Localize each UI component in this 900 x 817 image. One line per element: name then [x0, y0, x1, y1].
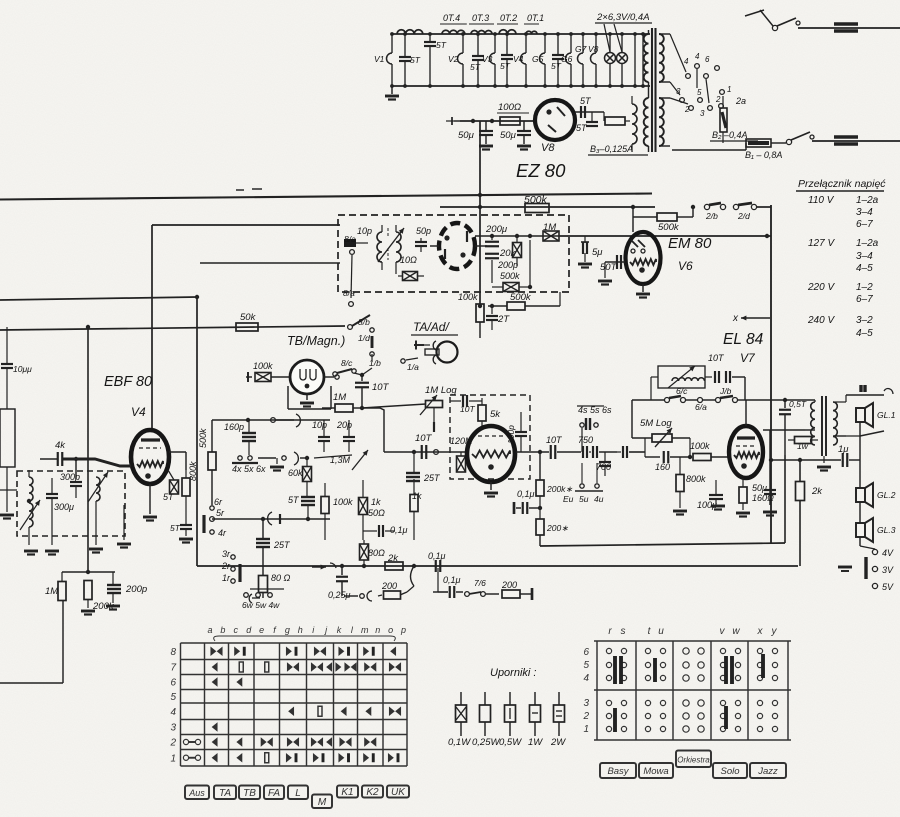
svg-text:220 V: 220 V — [807, 282, 835, 293]
svg-text:160p: 160p — [224, 422, 244, 432]
svg-text:V8: V8 — [541, 142, 555, 154]
svg-text:10T: 10T — [546, 435, 563, 445]
svg-text:4: 4 — [170, 707, 176, 718]
svg-text:Aus: Aus — [188, 788, 205, 798]
svg-text:0,25W: 0,25W — [472, 737, 500, 748]
svg-text:Uporniki :: Uporniki : — [490, 667, 536, 679]
svg-text:4V: 4V — [882, 548, 894, 558]
svg-text:5: 5 — [583, 660, 589, 671]
svg-text:7: 7 — [170, 663, 176, 674]
svg-text:80Ω: 80Ω — [368, 548, 385, 558]
svg-text:V4: V4 — [513, 54, 524, 64]
svg-text:2: 2 — [715, 95, 721, 104]
svg-text:160: 160 — [655, 462, 670, 472]
svg-text:2a: 2a — [735, 96, 746, 106]
svg-text:4–5: 4–5 — [856, 263, 873, 274]
svg-text:0T.4: 0T.4 — [443, 13, 460, 23]
svg-text:6: 6 — [170, 678, 176, 689]
svg-text:10T: 10T — [372, 382, 390, 393]
svg-text:100k: 100k — [458, 292, 478, 302]
svg-text:800k: 800k — [686, 474, 706, 484]
svg-text:5T: 5T — [500, 61, 511, 71]
svg-text:u: u — [658, 626, 664, 637]
svg-text:500k: 500k — [198, 428, 208, 448]
svg-text:10Ω: 10Ω — [400, 255, 417, 265]
svg-text:8/a: 8/a — [344, 234, 356, 244]
svg-text:5T: 5T — [163, 492, 175, 502]
svg-text:2×6,3V/0,4A: 2×6,3V/0,4A — [596, 12, 650, 23]
svg-text:GL.2: GL.2 — [877, 490, 896, 500]
svg-text:V7: V7 — [740, 351, 756, 365]
svg-text:g: g — [285, 625, 290, 635]
svg-text:B₂ –0,4A: B₂ –0,4A — [712, 130, 747, 140]
svg-text:4–5: 4–5 — [856, 328, 873, 339]
svg-text:300p: 300p — [60, 472, 80, 482]
svg-text:100Ω: 100Ω — [498, 102, 521, 113]
svg-text:1M: 1M — [333, 392, 346, 403]
svg-text:UK: UK — [391, 787, 406, 798]
svg-text:Mowa: Mowa — [643, 766, 668, 777]
svg-text:M: M — [318, 797, 327, 808]
svg-text:2: 2 — [169, 738, 176, 749]
svg-text:8: 8 — [170, 647, 176, 658]
svg-text:y: y — [771, 626, 778, 637]
svg-text:V4: V4 — [131, 405, 146, 419]
svg-text:0T.2: 0T.2 — [500, 13, 517, 23]
svg-text:V1: V1 — [374, 54, 385, 64]
svg-text:4u: 4u — [594, 494, 604, 504]
svg-text:200p: 200p — [497, 260, 518, 270]
svg-text:p: p — [400, 625, 406, 635]
svg-text:s: s — [621, 626, 626, 637]
svg-text:G5: G5 — [532, 54, 544, 64]
svg-text:m: m — [361, 625, 369, 635]
svg-text:B₃–0,125A: B₃–0,125A — [590, 144, 633, 154]
svg-text:6r: 6r — [214, 497, 223, 507]
svg-text:3r: 3r — [222, 549, 231, 559]
svg-text:0T.3: 0T.3 — [472, 13, 489, 23]
svg-text:FA: FA — [268, 788, 280, 799]
svg-text:1W: 1W — [528, 737, 543, 748]
svg-text:6–7: 6–7 — [856, 294, 873, 305]
svg-text:0,1μ: 0,1μ — [517, 489, 535, 499]
svg-text:4: 4 — [583, 673, 589, 684]
svg-text:J/b: J/b — [719, 386, 732, 396]
svg-text:50T: 50T — [600, 262, 618, 273]
svg-text:V2: V2 — [448, 54, 459, 64]
svg-text:3–4: 3–4 — [856, 207, 873, 218]
svg-text:3–4: 3–4 — [856, 251, 873, 262]
svg-text:500k: 500k — [500, 271, 520, 281]
svg-text:0,1μ: 0,1μ — [428, 551, 446, 561]
svg-text:1r: 1r — [222, 573, 231, 583]
svg-text:4k: 4k — [55, 440, 66, 451]
svg-text:8/c: 8/c — [341, 358, 353, 368]
svg-text:5μ: 5μ — [592, 247, 603, 258]
svg-text:0T.1: 0T.1 — [527, 13, 544, 23]
svg-text:50k: 50k — [240, 312, 257, 323]
svg-text:c: c — [234, 625, 239, 635]
svg-text:2: 2 — [582, 711, 589, 722]
svg-text:TA: TA — [219, 788, 231, 799]
svg-text:110 V: 110 V — [808, 195, 835, 206]
svg-text:10T: 10T — [708, 353, 725, 363]
svg-text:3–2: 3–2 — [856, 315, 873, 326]
svg-text:1/b: 1/b — [369, 358, 381, 368]
svg-text:200k∗: 200k∗ — [546, 484, 573, 494]
svg-text:8/b: 8/b — [358, 317, 370, 327]
svg-text:6w 5w 4w: 6w 5w 4w — [242, 600, 280, 610]
svg-text:3: 3 — [700, 109, 705, 118]
svg-text:200∗: 200∗ — [546, 523, 568, 533]
svg-text:20p: 20p — [336, 420, 352, 430]
svg-text:2W: 2W — [550, 737, 566, 748]
svg-text:100k: 100k — [253, 361, 273, 371]
svg-text:1–2a: 1–2a — [856, 238, 879, 249]
svg-text:10p: 10p — [357, 226, 372, 236]
svg-text:50μ: 50μ — [752, 483, 767, 493]
svg-text:50μ: 50μ — [500, 130, 517, 141]
svg-text:6: 6 — [583, 647, 589, 658]
svg-text:Eu: Eu — [563, 494, 574, 504]
svg-text:127 V: 127 V — [808, 238, 835, 249]
svg-text:Jazz: Jazz — [757, 766, 778, 777]
svg-text:e: e — [259, 625, 264, 635]
svg-text:5: 5 — [170, 692, 176, 703]
svg-text:2/d: 2/d — [737, 211, 750, 221]
svg-text:3: 3 — [170, 723, 176, 734]
svg-text:50μ: 50μ — [458, 130, 475, 141]
svg-text:K2: K2 — [366, 787, 379, 798]
svg-text:b: b — [220, 625, 225, 635]
svg-text:1k: 1k — [371, 497, 381, 507]
svg-text:h: h — [298, 625, 303, 635]
svg-text:0,5W: 0,5W — [499, 737, 522, 748]
svg-text:V6: V6 — [678, 259, 693, 273]
svg-text:200: 200 — [501, 580, 517, 590]
svg-text:L: L — [295, 788, 301, 799]
svg-text:2/b: 2/b — [705, 211, 718, 221]
svg-text:5T: 5T — [580, 96, 592, 106]
svg-text:300μ: 300μ — [54, 502, 74, 512]
svg-text:EL 84: EL 84 — [723, 331, 764, 348]
svg-text:5k: 5k — [490, 409, 501, 420]
svg-text:10p: 10p — [312, 420, 327, 430]
svg-text:6: 6 — [705, 55, 710, 64]
svg-text:750: 750 — [578, 435, 593, 445]
svg-text:V3: V3 — [482, 54, 493, 64]
svg-text:Solo: Solo — [720, 766, 739, 777]
svg-text:25T: 25T — [423, 473, 441, 483]
svg-text:4: 4 — [695, 52, 700, 61]
svg-text:5T: 5T — [170, 523, 181, 533]
svg-text:1/a: 1/a — [407, 362, 419, 372]
svg-text:4x 5x 6x: 4x 5x 6x — [232, 464, 266, 474]
svg-text:50Ω: 50Ω — [368, 508, 385, 518]
svg-text:Basy: Basy — [607, 766, 629, 777]
svg-text:x: x — [732, 313, 739, 324]
svg-text:5T: 5T — [576, 123, 588, 133]
svg-text:6/c: 6/c — [676, 386, 688, 396]
svg-text:k: k — [337, 625, 342, 635]
svg-text:EM 80: EM 80 — [668, 235, 712, 252]
svg-text:5T: 5T — [410, 55, 421, 65]
svg-text:5: 5 — [697, 88, 702, 97]
svg-text:TB: TB — [243, 788, 256, 799]
svg-text:500k: 500k — [658, 222, 680, 233]
svg-text:x: x — [757, 626, 764, 637]
svg-text:EZ 80: EZ 80 — [516, 160, 566, 181]
svg-text:1: 1 — [170, 753, 176, 764]
svg-text:0,1W: 0,1W — [448, 737, 471, 748]
svg-text:5M Log: 5M Log — [640, 418, 672, 429]
svg-text:TB/Magn.): TB/Magn.) — [287, 334, 345, 348]
svg-text:GL.3: GL.3 — [877, 525, 896, 535]
svg-text:2T: 2T — [497, 314, 510, 325]
svg-text:TA/Ad/: TA/Ad/ — [413, 320, 450, 334]
svg-text:6–7: 6–7 — [856, 219, 873, 230]
svg-text:100k: 100k — [333, 497, 353, 507]
svg-text:3V: 3V — [882, 565, 894, 575]
svg-text:5V: 5V — [882, 582, 894, 592]
svg-text:5T: 5T — [288, 495, 300, 505]
svg-text:8/a: 8/a — [343, 288, 355, 298]
svg-text:10T: 10T — [415, 433, 433, 444]
svg-text:w: w — [732, 626, 740, 637]
svg-text:Przełącznik napięć: Przełącznik napięć — [798, 178, 886, 190]
svg-text:G7: G7 — [575, 44, 587, 54]
svg-text:5T: 5T — [436, 40, 447, 50]
svg-text:n: n — [375, 625, 380, 635]
svg-text:100k: 100k — [690, 441, 710, 451]
svg-text:0,1μ: 0,1μ — [443, 575, 461, 585]
svg-text:3: 3 — [583, 698, 589, 709]
svg-text:EBF 80: EBF 80 — [104, 374, 152, 390]
svg-text:5T: 5T — [470, 62, 481, 72]
svg-text:240 V: 240 V — [807, 315, 835, 326]
svg-text:Orkiestra: Orkiestra — [677, 755, 710, 764]
svg-text:0,1μ: 0,1μ — [390, 525, 408, 535]
svg-text:200μ: 200μ — [485, 224, 508, 235]
svg-text:G6: G6 — [561, 54, 573, 64]
svg-text:200: 200 — [381, 581, 397, 591]
svg-text:1–2: 1–2 — [856, 282, 873, 293]
svg-text:a: a — [207, 625, 212, 635]
svg-text:2k: 2k — [811, 486, 823, 497]
svg-text:1/d: 1/d — [358, 333, 370, 343]
svg-text:5r: 5r — [216, 508, 225, 518]
svg-text:0,25μ: 0,25μ — [328, 590, 351, 600]
svg-text:80 Ω: 80 Ω — [271, 573, 291, 583]
svg-text:GL.1: GL.1 — [877, 410, 896, 420]
svg-text:2r: 2r — [221, 561, 231, 571]
svg-text:B₁ – 0,8A: B₁ – 0,8A — [745, 150, 782, 160]
svg-text:K1: K1 — [341, 787, 353, 798]
svg-text:1M: 1M — [45, 586, 58, 597]
svg-text:60k: 60k — [288, 468, 303, 478]
svg-text:10μμ: 10μμ — [13, 364, 32, 374]
svg-text:4r: 4r — [218, 528, 227, 538]
svg-text:4: 4 — [684, 57, 689, 66]
svg-text:1w: 1w — [797, 441, 809, 451]
svg-text:50p: 50p — [416, 226, 431, 236]
svg-text:25T: 25T — [273, 540, 291, 550]
svg-text:o: o — [388, 625, 393, 635]
svg-text:1–2a: 1–2a — [856, 195, 879, 206]
svg-text:1: 1 — [727, 85, 731, 94]
svg-text:200p: 200p — [125, 584, 147, 595]
svg-text:5u: 5u — [579, 494, 589, 504]
svg-text:1: 1 — [583, 724, 589, 735]
svg-text:V8: V8 — [588, 44, 599, 54]
svg-text:6/a: 6/a — [695, 402, 707, 412]
svg-text:7/6: 7/6 — [474, 578, 486, 588]
